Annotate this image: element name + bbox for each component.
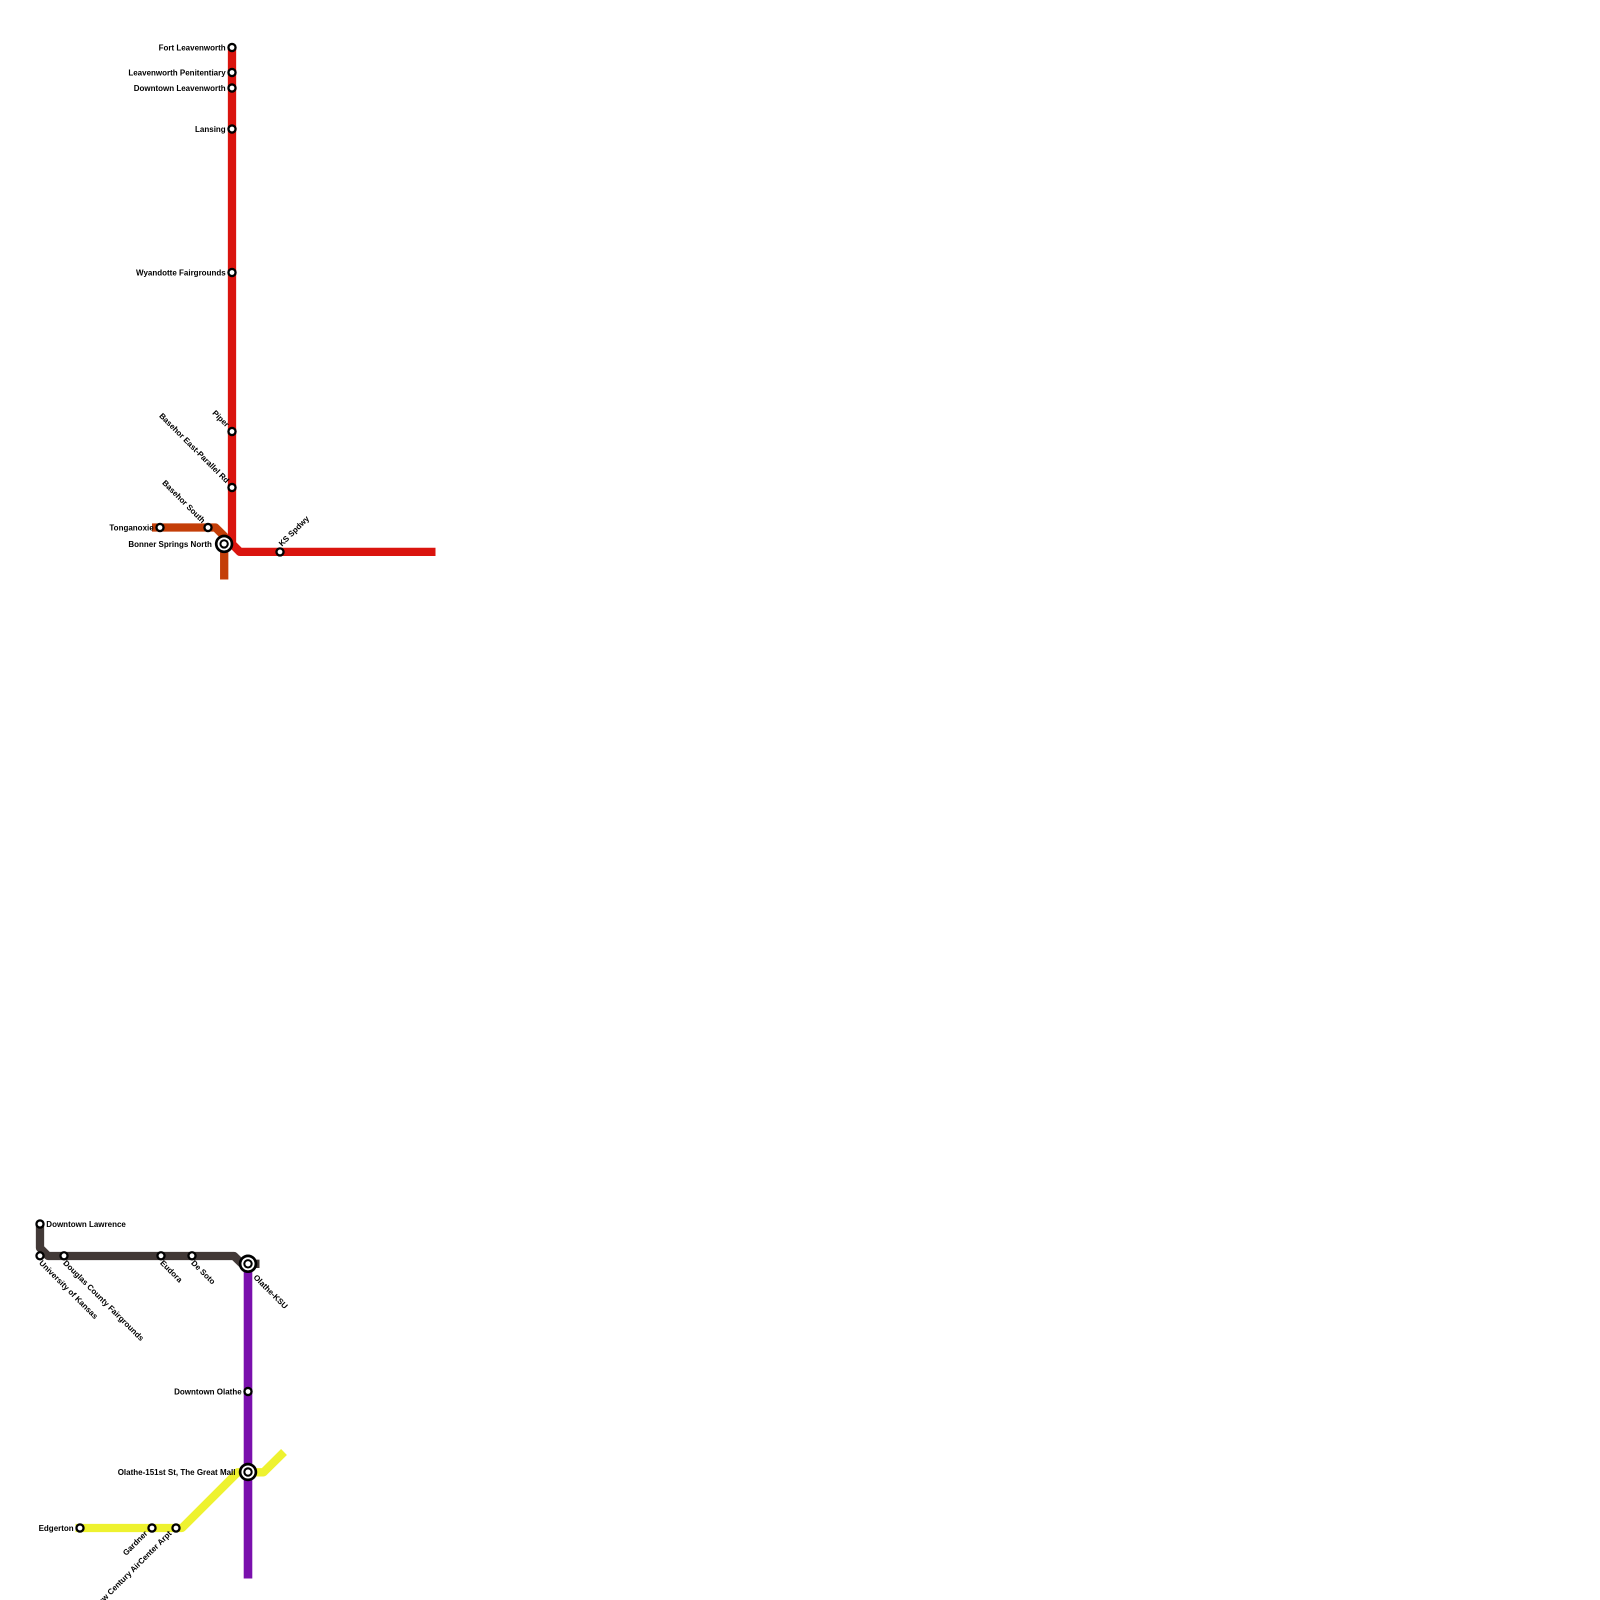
station Fort Leavenworth	[228, 44, 235, 51]
station Downtown Lawrence	[36, 1220, 43, 1227]
station De Soto	[188, 1252, 195, 1259]
svg-text:Wyandotte Fairgrounds: Wyandotte Fairgrounds	[136, 268, 226, 277]
station Gardner	[148, 1524, 155, 1531]
svg-text:Downtown Olathe: Downtown Olathe	[174, 1387, 242, 1396]
station University of Kansas	[36, 1252, 43, 1259]
svg-text:Downtown Leavenworth: Downtown Leavenworth	[134, 84, 226, 93]
interchange Olathe-KSU	[239, 1255, 258, 1274]
station Leavenworth Penitentiary	[228, 69, 235, 76]
interchange Bonner Springs North	[215, 535, 234, 554]
station Douglas County Fairgrounds	[60, 1252, 67, 1259]
station Basehor South	[204, 524, 211, 531]
svg-text:Tonganoxie: Tonganoxie	[109, 523, 154, 532]
svg-text:Edgerton: Edgerton	[39, 1524, 74, 1533]
svg-text:Lansing: Lansing	[195, 125, 226, 134]
svg-text:Downtown Lawrence: Downtown Lawrence	[46, 1220, 126, 1229]
svg-text:Bonner Springs North: Bonner Springs North	[128, 540, 212, 549]
station Downtown Leavenworth	[228, 84, 235, 91]
svg-text:Leavenworth Penitentiary: Leavenworth Penitentiary	[128, 68, 226, 77]
station Edgerton	[76, 1524, 83, 1531]
station Eudora	[157, 1252, 164, 1259]
red line Leavenworth	[232, 48, 436, 552]
orange line Tonganoxie branch	[152, 528, 224, 580]
station KS Speedway	[276, 548, 283, 555]
station Basehor East-Parallel Rd	[228, 484, 235, 491]
station Lansing	[228, 125, 235, 132]
station Tonganoxie	[156, 524, 163, 531]
interchange Olathe-151st St, The Great Mall	[239, 1463, 258, 1482]
station New Century AirCenter Arpt	[172, 1524, 179, 1531]
gray line Lawrence	[40, 1224, 260, 1264]
svg-text:Olathe-151st St, The Great Mal: Olathe-151st St, The Great Mall	[118, 1468, 236, 1477]
svg-text:Fort Leavenworth: Fort Leavenworth	[159, 43, 226, 52]
purple line Olathe	[244, 1264, 253, 1579]
station Downtown Olathe	[244, 1388, 251, 1395]
yellow line Edgerton	[76, 1452, 285, 1528]
station Wyandotte Fairgrounds	[228, 269, 235, 276]
station Piper	[228, 428, 235, 435]
